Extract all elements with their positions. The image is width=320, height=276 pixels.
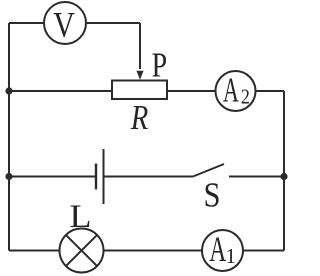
svg-text:A: A xyxy=(209,229,226,269)
svg-text:V: V xyxy=(53,5,75,45)
svg-text:2: 2 xyxy=(241,85,250,109)
svg-text:R: R xyxy=(130,98,148,137)
svg-text:S: S xyxy=(204,176,221,215)
svg-text:P: P xyxy=(152,45,168,84)
svg-text:1: 1 xyxy=(226,244,237,268)
svg-text:A: A xyxy=(223,70,239,109)
svg-text:L: L xyxy=(70,199,92,235)
